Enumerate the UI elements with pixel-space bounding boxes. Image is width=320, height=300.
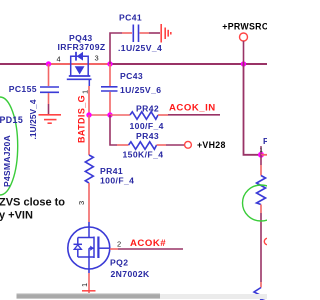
gate bar <box>67 78 92 80</box>
svg-text:.1U/25V_4: .1U/25V_4 <box>28 99 38 139</box>
node junction (89,115) <box>86 112 91 117</box>
left vertical (pin4 side) <box>70 56 72 76</box>
substrate arrow down <box>75 66 85 74</box>
svg-text:150K/F_4: 150K/F_4 <box>123 150 164 160</box>
svg-text:PR42: PR42 <box>136 104 159 114</box>
svg-text:P: P <box>263 136 267 146</box>
svg-text:1: 1 <box>81 90 90 94</box>
svg-text:PC155: PC155 <box>9 84 37 94</box>
svg-text:PC43: PC43 <box>120 71 143 81</box>
wire stub right at 261 <box>261 154 267 156</box>
node junction (261,155) <box>258 152 264 158</box>
svg-text:.1U/25V_4: .1U/25V_4 <box>118 43 162 53</box>
svg-text:PD15: PD15 <box>0 115 23 125</box>
svg-text:ACOK#: ACOK# <box>130 238 166 249</box>
svg-text:100/F_4: 100/F_4 <box>130 121 164 131</box>
resistor (right, unlabelled) <box>257 155 266 282</box>
node junction (243.5,64) <box>241 61 246 66</box>
capacitor PC43 <box>101 64 118 115</box>
svg-text:3: 3 <box>77 201 86 205</box>
svg-text:PQ2: PQ2 <box>110 258 128 268</box>
diode PD15 (mostly cut off at left): green circle annotation <box>0 97 18 195</box>
wire junction row y=115 <box>89 114 110 116</box>
wire drain from PR41 <box>88 222 90 227</box>
gate lead to right <box>100 247 110 249</box>
node junction (48.5,64) <box>46 61 51 66</box>
node +PRWSRC terminal <box>240 33 248 41</box>
svg-text:3: 3 <box>95 54 99 63</box>
svg-text:BATDIS_G: BATDIS_G <box>77 95 87 143</box>
svg-text:ZVS close to: ZVS close to <box>0 197 65 209</box>
capacitor PC155 <box>40 64 59 114</box>
wire stub at bottom <box>82 290 96 292</box>
svg-text:1U/25V_6: 1U/25V_6 <box>120 85 161 95</box>
svg-text:4: 4 <box>57 55 61 64</box>
svg-text:y +VIN: y +VIN <box>0 210 33 222</box>
wire pin leads of PQ43 on rail <box>49 63 111 65</box>
svg-text:+VH28: +VH28 <box>197 140 226 150</box>
svg-text:100/F_4: 100/F_4 <box>100 176 134 186</box>
channel bar <box>69 75 91 77</box>
node red circle fragment at right edge <box>264 238 270 244</box>
svg-text:IRFR3709Z: IRFR3709Z <box>58 42 106 52</box>
wire main rail right <box>110 63 267 65</box>
resistor PR42 <box>110 112 168 120</box>
wire source of PQ2 down <box>88 269 90 273</box>
internals <box>88 227 90 238</box>
body diode <box>77 238 79 245</box>
svg-text:ACOK_IN: ACOK_IN <box>169 103 216 114</box>
svg-text:PR41: PR41 <box>100 166 123 176</box>
ground under PC155 <box>39 115 62 123</box>
transistor PQ2 2N7002K <box>68 222 110 269</box>
resistor PR41 <box>85 115 93 222</box>
wire rail down right branch <box>244 64 262 155</box>
wire main rail left <box>0 63 49 65</box>
node junction (110,115) <box>107 112 112 117</box>
ground right of PC41 (rotated) <box>161 24 171 43</box>
svg-text:2N7002K: 2N7002K <box>111 269 151 279</box>
svg-text:P4SMAJ20A: P4SMAJ20A <box>2 135 12 187</box>
resistor PR43 <box>110 115 184 149</box>
top bar with body diode <box>71 55 89 57</box>
wire +PRWSRC down to rail <box>243 41 245 64</box>
net ACOK# stub <box>110 248 118 250</box>
net ACOK_IN stub <box>168 114 220 116</box>
node junction (110,64) <box>107 61 112 66</box>
scrollbar thumb <box>17 293 161 299</box>
svg-text:1: 1 <box>80 283 89 287</box>
svg-text:PR43: PR43 <box>136 131 159 141</box>
svg-text:+PRWSRC: +PRWSRC <box>222 22 267 32</box>
node +VH28 open circle <box>185 141 192 148</box>
resistor (bottom right, cut) <box>254 282 266 300</box>
scrollbar track <box>17 294 268 299</box>
capacitor PC41 <box>110 25 160 65</box>
net BATDIS_G wire (gate of PQ43 down) <box>88 86 90 115</box>
transistor Q PQ43 IRFR3709Z <box>67 52 92 86</box>
wire stub up at 261 <box>260 146 262 155</box>
right vertical (pin3 side) <box>87 56 89 76</box>
annotation green ellipse (right resistor) <box>243 185 280 221</box>
circle <box>68 227 110 269</box>
svg-text:PC41: PC41 <box>119 13 142 23</box>
svg-text:2: 2 <box>117 240 121 249</box>
gate lead pin 1 <box>88 79 90 86</box>
